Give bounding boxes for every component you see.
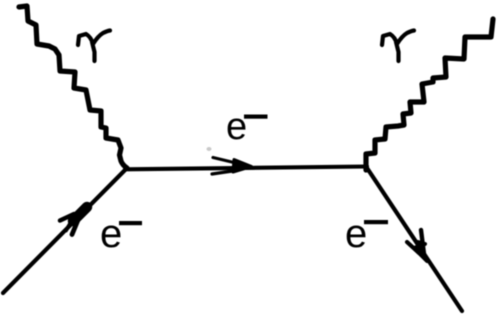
arrowhead on incoming electron <box>60 207 87 235</box>
label e- (propagator) <box>226 106 268 148</box>
svg-text:e: e <box>100 212 122 256</box>
label e- (outgoing electron) <box>345 212 388 256</box>
arrowhead on outgoing electron <box>407 230 427 261</box>
svg-text:e: e <box>226 106 247 148</box>
photon gamma1 (incoming wavy line, top-left) <box>19 6 127 168</box>
photon gamma2 (outgoing wavy line, top-right) <box>366 19 493 170</box>
faint smudge under propagator label <box>207 147 212 151</box>
electron propagator (horizontal internal line) <box>125 167 367 170</box>
arrowhead on propagator <box>212 158 252 175</box>
label gamma2 <box>382 31 414 62</box>
electron e1 incoming line (bottom-left) <box>3 168 127 293</box>
label gamma1 <box>78 31 110 62</box>
label e- (incoming electron) <box>100 212 142 256</box>
electron e2 outgoing line (bottom-right) <box>367 168 462 311</box>
svg-text:e: e <box>345 212 367 256</box>
